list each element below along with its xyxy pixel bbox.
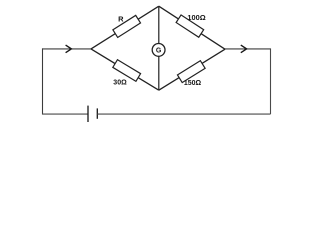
battery cell: long plate: [87, 106, 89, 122]
resistor 100&#937; (top-right arm): [176, 15, 204, 37]
current arrow on right wire: [241, 45, 247, 53]
wire: left vertical: [42, 48, 44, 114]
battery cell: short plate: [96, 108, 98, 118]
bridge arm wire: node A to node D (bottom-left): [91, 49, 159, 90]
svg-text:100Ω: 100Ω: [187, 13, 205, 22]
svg-text:G: G: [156, 48, 162, 55]
wire: left horizontal (battery loop to node A): [42, 48, 91, 50]
bridge arm wire: node D to node C (bottom-right): [159, 49, 225, 90]
bridge arm wire: node B to node C (top-right): [159, 6, 225, 49]
svg-text:150Ω: 150Ω: [184, 80, 202, 87]
resistor 30&#937; (bottom-left arm): [113, 60, 141, 82]
wire: right horizontal (node C to battery loop): [225, 48, 271, 50]
galvanometer U1 body: [152, 44, 165, 57]
wire: bottom segment left of battery: [42, 113, 88, 115]
current arrow on left wire: [66, 45, 72, 53]
galvanometer branch wire: node B to node D: [158, 6, 160, 90]
resistor R (top-left arm, unknown): [113, 15, 141, 37]
resistor 150&#937; (bottom-right arm): [177, 61, 205, 83]
wire: bottom segment right of battery: [97, 113, 270, 115]
bridge arm wire: node A to node B (top-left): [91, 6, 159, 49]
svg-text:R: R: [118, 15, 124, 24]
svg-text:30Ω: 30Ω: [113, 79, 127, 86]
wire: right vertical: [270, 48, 272, 114]
